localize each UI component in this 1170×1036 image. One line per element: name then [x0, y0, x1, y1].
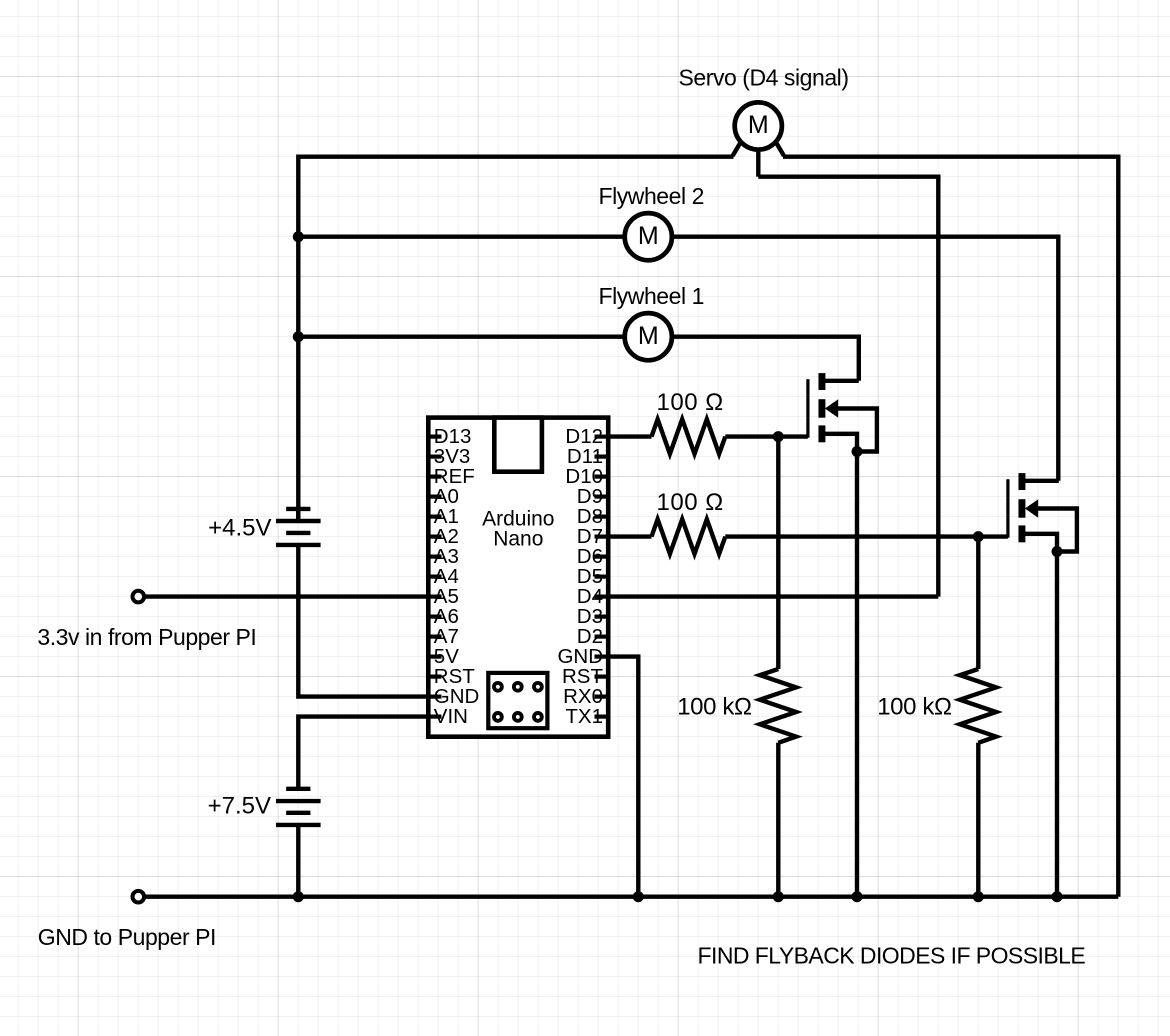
U1 pin TX1 (right) [595, 714, 611, 718]
wire: top servo power rail right segment [783, 154, 1121, 158]
wire: D4 pin to servo signal column [610, 594, 938, 598]
U1 pin D9 (right) [595, 495, 611, 499]
svg-text:Servo (D4 signal): Servo (D4 signal) [679, 64, 849, 90]
U1 pin A6 (left) [427, 614, 442, 618]
wire: R1 to gate of MOSFET Q1 [725, 434, 808, 438]
junction: Q2 source / ground rail [1052, 891, 1063, 902]
terminal: 3.3v input node [133, 591, 145, 603]
U1 pin 3V3 (left) [427, 455, 442, 459]
U1 pin GND (right) [595, 654, 611, 658]
junction: flywheel 1 rail [293, 331, 304, 342]
wire: gate node down to 100k resistor R3 [776, 437, 780, 669]
U1 pin D2 (right) [595, 634, 611, 638]
wire: flywheel 1 row right segment to MOSFET Q1 drain [671, 337, 858, 381]
wire: D12 pin to 100 ohm resistor R1 [610, 434, 652, 438]
U1 pin RST (left) [427, 674, 442, 678]
junction: R3 / ground rail [773, 891, 784, 902]
svg-text:M: M [748, 111, 769, 139]
svg-text:TX1: TX1 [565, 705, 603, 728]
U1 pin D4 (right) [595, 594, 611, 598]
resistor R1 100 ohm (D12 to Q1 gate) [652, 419, 726, 454]
transistor Q1 N-MOSFET (flywheel 1 driver) [806, 379, 809, 438]
junction: R4 / ground rail [973, 891, 984, 902]
U1 pin A7 (left) [427, 634, 442, 638]
resistor R3 100 kohm pulldown [760, 669, 796, 743]
wire: +7.5V battery top to Arduino VIN pin [298, 717, 428, 789]
junction: top rail / flywheel 2 rail [293, 231, 304, 242]
U1 ICSP pin hole 6 [534, 713, 542, 721]
svg-text:100 kΩ: 100 kΩ [677, 694, 751, 721]
resistor R2 100 ohm (D7 to Q2 gate) [652, 519, 726, 554]
battery B2 +7.5V [286, 787, 310, 791]
wire: right vertical drop from top rail to ground rail [1116, 155, 1120, 897]
wire: Arduino GND (right) pin to ground rail [610, 657, 638, 897]
svg-text:M: M [638, 222, 659, 250]
svg-text:+7.5V: +7.5V [208, 793, 271, 820]
junction: battery column / ground rail [293, 891, 304, 902]
svg-text:100 Ω: 100 Ω [657, 389, 724, 416]
svg-text:FIND FLYBACK DIODES IF POSSIBL: FIND FLYBACK DIODES IF POSSIBLE [698, 943, 1086, 969]
wire: R2 to gate of MOSFET Q2 [725, 534, 1008, 538]
wire: gate node down to 100k resistor R4 [976, 537, 980, 669]
motor M1: Flywheel 1 [625, 313, 672, 360]
wire: servo signal run to D4 column [758, 177, 938, 597]
wire: +4.5V battery to Arduino GND pin (left) [298, 545, 428, 697]
wire: 3.3v input terminal to A5 pin [144, 594, 429, 598]
svg-text:VIN: VIN [434, 705, 468, 728]
terminal: GND output node [133, 891, 145, 903]
U1 pin D8 (right) [595, 514, 611, 518]
svg-text:GND to Pupper PI: GND to Pupper PI [38, 924, 216, 950]
svg-text:3.3v in from Pupper PI: 3.3v in from Pupper PI [37, 624, 256, 650]
battery B1 +4.5V [286, 507, 310, 511]
svg-text:100 kΩ: 100 kΩ [877, 694, 951, 721]
transistor Q2 N-MOSFET (flywheel 2 driver) [1006, 479, 1009, 538]
wire: R3 bottom to ground rail [776, 743, 780, 897]
U1 pin D13 (left) [427, 435, 442, 439]
U1 pin A4 (left) [427, 574, 442, 578]
U1 ICSP pin hole 5 [514, 713, 522, 721]
U1 ICSP header [488, 673, 547, 728]
svg-text:Flywheel 1: Flywheel 1 [599, 283, 704, 309]
motor M3: servo (legs onto top rail) [733, 143, 741, 156]
U1 pin D3 (right) [595, 614, 611, 618]
junction: R1 output / Q1 gate / R3 [773, 431, 784, 442]
wire: flywheel 2 row right segment to MOSFET Q2 drain [671, 237, 1058, 481]
wire: flywheel 1 row left segment [298, 335, 625, 339]
wire: MOSFET Q1 source to ground rail [855, 452, 859, 897]
svg-text:Flywheel 2: Flywheel 2 [599, 183, 704, 209]
U1 pin GND (left) [427, 694, 442, 698]
wire: left power column from top rail to +4.5V battery [296, 155, 300, 522]
U1 pin VIN (left) [427, 714, 442, 718]
wire: D7 pin to 100 ohm resistor R2 [610, 534, 652, 538]
U1 pin D7 (right) [595, 534, 611, 538]
U1 pin D5 (right) [595, 574, 611, 578]
wire: +7.5V battery bottom to ground rail [296, 825, 300, 897]
junction: Arduino GND / ground rail [633, 891, 644, 902]
U1 pin A5 (left) [427, 594, 442, 598]
U1 pin D11 (right) [595, 455, 611, 459]
U1 pin D12 (right) [595, 435, 611, 439]
wire: flywheel 2 row left segment [298, 234, 625, 238]
U1 pin RX0 (right) [595, 694, 611, 698]
wire: R4 bottom to ground rail [976, 743, 980, 897]
wire: top servo power rail left segment [298, 154, 733, 158]
wire: servo signal lead down from motor [756, 148, 760, 177]
U1 pin REF (left) [427, 475, 442, 479]
U1 ICSP pin hole 2 [514, 683, 522, 691]
U1 pin D10 (right) [595, 475, 611, 479]
svg-text:100 Ω: 100 Ω [657, 489, 724, 516]
svg-text:M: M [638, 322, 659, 350]
U1 pin A3 (left) [427, 554, 442, 558]
U1 pin A1 (left) [427, 514, 442, 518]
U1 pin A0 (left) [427, 495, 442, 499]
U1 ICSP pin hole 1 [494, 683, 502, 691]
U1 ICSP pin hole 4 [494, 713, 502, 721]
svg-text:+4.5V: +4.5V [208, 515, 271, 542]
resistor R4 100 kohm pulldown [960, 669, 996, 743]
U1 pin RST (right) [595, 674, 611, 678]
U1 USB connector notch [494, 418, 542, 472]
wire: bottom ground rail [144, 895, 1119, 899]
junction: Q1 source / ground rail [852, 891, 863, 902]
U1 pin D6 (right) [595, 554, 611, 558]
svg-text:Nano: Nano [493, 528, 543, 551]
U1 pin A2 (left) [427, 534, 442, 538]
U1 ICSP pin hole 3 [534, 683, 542, 691]
U1 pin 5V (left) [427, 654, 442, 658]
wire: MOSFET Q2 source to ground rail [1055, 552, 1059, 897]
motor M2: Flywheel 2 [625, 213, 672, 260]
junction: R2 output / Q2 gate / R4 [973, 531, 984, 542]
op-amp U1: Arduino Nano body [428, 418, 608, 737]
